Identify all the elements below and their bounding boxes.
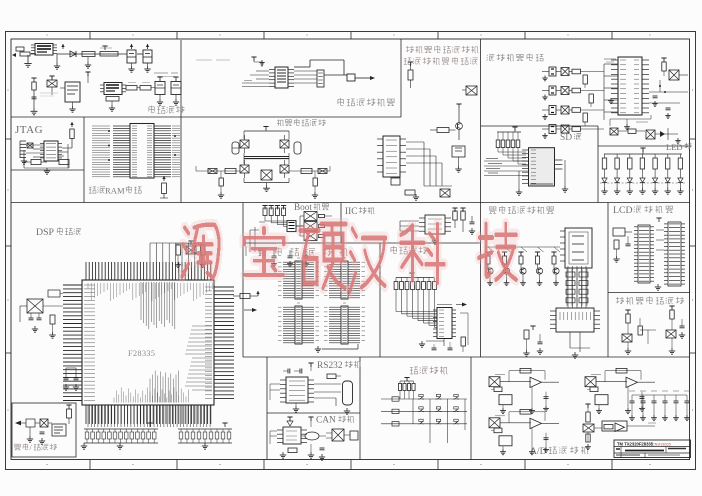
label: temperature/analog acquisition 温度、模拟采集 (616, 296, 684, 304)
motor bus double line (244, 153, 289, 164)
audio right caps gnds (608, 96, 671, 118)
adc channel cell 3 (489, 410, 559, 455)
DAC top gnd/vcc pair (251, 57, 264, 67)
power rail row1 (57, 53, 143, 55)
expansion header JP2 top-right (324, 258, 365, 299)
JTAG left wires (26, 145, 44, 157)
LED top rail and vcc (604, 148, 682, 154)
label: CAN comms CAN通讯 (316, 416, 354, 426)
iic eeprom U10 (419, 215, 451, 234)
lcd contrast parts (613, 228, 632, 262)
SD left wire bundle (484, 159, 528, 176)
temp sensor circuit left (622, 310, 642, 354)
decoupling parts above DSP (175, 241, 206, 268)
decoupling cap bank row short (178, 423, 232, 449)
DSP left inner pin labels (84, 285, 95, 401)
label: power supply 电源电路 (149, 105, 185, 113)
watermark char 淘 (182, 225, 219, 278)
DAC right wires to header (294, 71, 317, 83)
audio bottom wires (610, 115, 651, 130)
power input jack J1 (12, 47, 36, 57)
expansion left arrow (244, 308, 257, 312)
audio right wires (649, 80, 688, 103)
label: SD card (560, 133, 581, 143)
DAC IC U5 (269, 67, 294, 88)
row2 vcc mid (85, 72, 90, 83)
label: DAC 数模转换电路 (338, 98, 395, 106)
label: key switches 按键开关 (410, 366, 448, 374)
res R1 row1 (82, 52, 95, 69)
net labels tiny top right (196, 59, 230, 61)
DSP right inner pin labels (205, 287, 212, 399)
watermark char 技 (479, 224, 517, 280)
adc channel cell 4 (583, 404, 656, 450)
analog input circuit right (666, 306, 685, 354)
7seg driver IC U12 (550, 308, 600, 332)
iic pull-ups (452, 208, 465, 232)
svg-text:CAN: CAN (316, 416, 336, 426)
RAM IC U4 (130, 124, 154, 179)
dc motor right branch (289, 166, 330, 198)
cap block C3 (143, 50, 152, 72)
label: stepper/buzzer/relay line2 (404, 57, 478, 65)
caps row above DSP (271, 250, 309, 267)
label: DSP main chip DSP主芯片 (36, 227, 81, 238)
label: RS232 comms RS232通讯 (317, 361, 361, 371)
rs232 gnds (293, 403, 350, 414)
row2 xbox input (47, 76, 57, 95)
diode D1 row1 (70, 51, 76, 57)
label: Boot select Boot选择 (294, 202, 329, 212)
label: LCD display LCD液晶显示 (613, 205, 673, 216)
audio input row 4 (542, 125, 604, 139)
DSP chip U1 F28335 body (82, 280, 214, 405)
label: 7-seg driver 数码管驱动电路 (489, 206, 554, 214)
svg-text:Boot: Boot (294, 202, 312, 212)
rs232 caps above (283, 363, 314, 374)
rs232 DB9 connector J7 (343, 381, 353, 405)
RAM junction dots (108, 130, 176, 161)
SD pull-up bank (496, 127, 526, 164)
label: ext expansion connector 外部接口插件 (258, 247, 348, 256)
svg-text:(CN)F28335: (CN)F28335 (651, 442, 671, 446)
7seg display DS1 (560, 228, 592, 268)
level shift right wires (437, 303, 468, 346)
lcd header H2 (664, 222, 685, 286)
label: ext RAM 外扩RAM电路 (89, 186, 142, 196)
watermark char 汉 (350, 229, 386, 292)
wires from top into DSP (150, 243, 201, 262)
DSP bottom pin comb (86, 405, 211, 424)
LED columns with resistors and diodes (600, 154, 686, 194)
RAM pull resistor R7 (160, 176, 168, 198)
audio bus into codec (604, 64, 618, 120)
svg-text:RS232: RS232 (317, 361, 343, 371)
level shift IC U11 (433, 308, 456, 339)
reset rc parts (27, 405, 72, 444)
iic cap and gnd (432, 216, 475, 244)
expansion header JP4 bottom-right (324, 303, 365, 344)
can transceiver U14 (277, 427, 307, 444)
audio parts near LED top right (646, 128, 681, 143)
can left wires (270, 431, 277, 444)
adc channel cell 1 (489, 368, 559, 413)
RAM right label ticks (172, 126, 180, 177)
label: JTAG (15, 124, 43, 136)
row2 faint label (40, 93, 58, 96)
buzzer BZ1 (452, 146, 465, 172)
key column wires (413, 399, 465, 443)
DSP inner bottom pin label texture (114, 371, 188, 403)
rs232 IC U13 MAX3232 (280, 377, 314, 403)
label: monitor/reset 监控/复位电路 (14, 443, 57, 452)
RAM left pin comb (113, 126, 130, 177)
audio input row 1 (542, 67, 604, 81)
h-bridge center part (261, 170, 272, 180)
expansion gnd bottom (315, 344, 358, 352)
oscillator circuit left of DSP (20, 299, 63, 332)
JTAG buffer IC U3 (40, 141, 62, 161)
RAM left label ticks (92, 126, 110, 177)
DAC staircase bus (294, 60, 375, 80)
JTAG header pads left (20, 141, 33, 164)
svg-text:SD: SD (560, 133, 572, 143)
SD gnds (516, 171, 568, 195)
DSP left pin comb (63, 285, 82, 401)
level shift resistor row (394, 273, 436, 290)
label: level shift 电平转换 (391, 246, 427, 254)
net label lines right (154, 73, 178, 77)
DAC left wire bundle (242, 71, 269, 87)
row2 left vertical chain (31, 78, 38, 115)
svg-text:LED: LED (666, 142, 683, 152)
stepper connector J4 (462, 86, 477, 95)
motor terminal right (294, 142, 301, 154)
h-bridge bottom rail gnd (244, 178, 289, 192)
level shift staircase wires (396, 290, 437, 328)
h-bridge top rail (244, 127, 289, 140)
audio input row 2 (542, 86, 604, 100)
iic left wires (400, 221, 419, 231)
audio input row 3 (542, 106, 604, 120)
label: DC motor drive 直流电机驱动 (277, 119, 325, 126)
svg-text:JTAG: JTAG (15, 124, 43, 136)
audio codec IC U7 (611, 57, 649, 115)
watermark char 宝 (244, 228, 284, 275)
caps below-left of DSP (63, 368, 79, 390)
power gnd u30 (54, 54, 60, 69)
can choke (301, 432, 326, 440)
stepper bottom parts (405, 189, 450, 200)
JTAG bottom resistors (24, 150, 69, 174)
audio codec pre-labels (604, 59, 616, 62)
adc cap bank (629, 391, 690, 421)
watermark char 科 (401, 224, 444, 283)
JTAG pullup resistor R6 (62, 122, 74, 148)
row2 regulator dark U33 (100, 83, 126, 95)
motor terminal left (232, 142, 239, 154)
RAM right pin comb (154, 126, 171, 177)
decoupling cap bank row long (81, 423, 158, 449)
monitor/reset section box (12, 403, 76, 457)
label: A/D converter A/D转换电路 (530, 446, 588, 457)
can connector J8 (326, 429, 358, 441)
relay wires (406, 142, 452, 186)
wires above DSP to boot row (246, 246, 260, 256)
rs232 left wires (270, 384, 280, 400)
rs232 wires right (314, 374, 341, 406)
7seg transistor drivers (485, 247, 560, 286)
cap block C2 (127, 50, 136, 72)
stepper transistor Q1 (430, 104, 462, 140)
DSP right pin comb (214, 287, 234, 399)
svg-text:TM TX2320F28335: TM TX2320F28335 (617, 441, 654, 446)
row2 res under U33 (106, 97, 119, 112)
audio parts near LED top left (610, 128, 645, 135)
level shift bottom parts (419, 337, 466, 352)
boot jumpers J-B1..3 (296, 212, 332, 241)
title block (614, 440, 691, 458)
7seg resistor bank (566, 268, 588, 306)
7seg cells top bus (486, 246, 560, 248)
boot pull resistor cluster (259, 206, 287, 227)
SD right pins (555, 160, 566, 186)
svg-text:RAM: RAM (105, 186, 125, 196)
driver IC U6 ULN2003 (377, 136, 406, 185)
audio right xbox (669, 70, 688, 80)
key row wires (381, 397, 467, 426)
svg-text:LCD: LCD (613, 205, 633, 216)
label: IIC comms IIC通讯 (345, 207, 375, 217)
expansion header JP1 top-left (278, 258, 319, 299)
can vcc parts (287, 417, 314, 427)
lcd header H1 (634, 225, 654, 283)
row2 box C6 far right (171, 77, 181, 105)
label: stepper/buzzer/relay line1 (406, 45, 479, 53)
7seg left bottom parts (523, 326, 543, 356)
power bridge block U30 (31, 44, 57, 56)
audio right res (661, 58, 666, 76)
label: LED group (666, 142, 692, 152)
wire bus DSP bottom (88, 405, 210, 427)
svg-text:DSP: DSP (36, 227, 55, 238)
label: audio decoder 音频解码电路 (487, 53, 544, 61)
lcd wires/gnd (655, 218, 664, 290)
power gnd left (24, 55, 31, 67)
h-bridge lower fets Q5 Q6 (240, 160, 289, 178)
svg-text:F28335: F28335 (128, 349, 155, 358)
row2 regulator block A (60, 82, 80, 112)
DSP inner top pin label texture (88, 282, 213, 329)
7seg vertical wire bundle (568, 266, 586, 308)
DSP right inner horizontal labels (185, 326, 212, 390)
temp wires (640, 330, 656, 344)
resistor right of DSP (233, 291, 260, 299)
dc motor left branch (196, 166, 240, 198)
DSP top pin comb (86, 262, 211, 280)
key pull-up cluster (398, 378, 415, 400)
SD socket U8 (522, 148, 555, 186)
adc channel cell 2 (585, 368, 655, 413)
DSP chip name F28335 (128, 349, 155, 358)
reset supervisor circuit (15, 419, 52, 427)
boot resistor pack RN1 (287, 221, 296, 232)
watermark char 硬 (300, 224, 346, 288)
RAM inner ticks (132, 126, 152, 177)
row2 res chain right (126, 83, 155, 91)
vcc arrows row1 (61, 44, 149, 49)
JTAG right wires (58, 144, 68, 168)
svg-text:IIC: IIC (345, 207, 358, 217)
reset parts left of DSP (48, 290, 63, 338)
DAC header J3 (317, 70, 324, 87)
res R2 row1 + label (100, 46, 118, 56)
audio inter-row caps (583, 75, 593, 126)
row2 box C5 (155, 77, 165, 105)
h-bridge upper fets Q3 Q4 (240, 135, 289, 153)
stepper top small parts (408, 62, 413, 88)
DAC out box (347, 74, 355, 81)
key switch cells (418, 394, 459, 423)
expansion header JP3 bottom-left (278, 303, 319, 344)
can bottom parts (280, 444, 325, 460)
reset ic U9 (52, 424, 66, 436)
boot wires down (250, 227, 259, 252)
7seg bottom wires (570, 332, 590, 358)
